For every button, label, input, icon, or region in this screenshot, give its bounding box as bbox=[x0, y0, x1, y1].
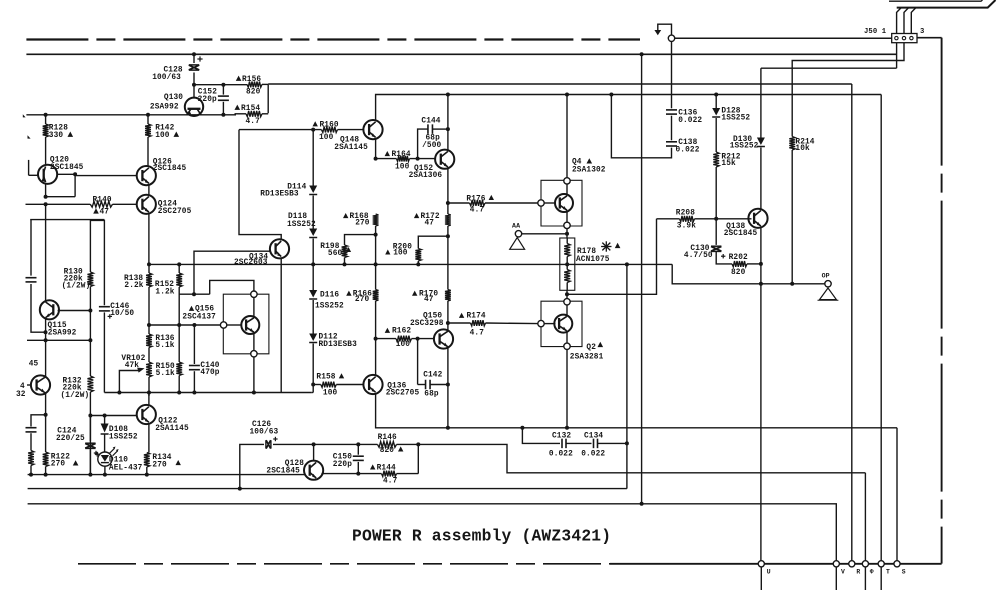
label Q122 type bbox=[155, 425, 189, 433]
svg-text:3: 3 bbox=[920, 28, 924, 36]
diode D114 bbox=[309, 186, 317, 195]
wire J50 pin1 riser bbox=[897, 8, 902, 34]
resistor R144 bbox=[382, 471, 397, 477]
label R214 bbox=[795, 139, 814, 147]
label C140 value bbox=[200, 369, 219, 377]
svg-text:R158: R158 bbox=[316, 374, 335, 382]
svg-text:100: 100 bbox=[323, 389, 338, 397]
capacitor C146 bbox=[99, 307, 112, 319]
pin Q2 collector top bbox=[564, 299, 570, 305]
label C152 value bbox=[198, 96, 217, 104]
wire R132 down bbox=[88, 392, 92, 477]
label C144 value bbox=[426, 134, 441, 142]
label Q156 bbox=[189, 306, 215, 314]
transistor Q150 bbox=[434, 329, 453, 348]
svg-text:R: R bbox=[856, 568, 860, 575]
label R212 bbox=[721, 153, 740, 161]
label D108 type bbox=[109, 433, 138, 441]
svg-text:C134: C134 bbox=[584, 433, 603, 441]
capacitor C144 bbox=[418, 124, 450, 158]
resistor R174 bbox=[471, 320, 486, 326]
wire R146 node jog to phi bbox=[418, 444, 865, 472]
wire R156 output rail bbox=[267, 85, 269, 114]
wire J50 pin2 riser bbox=[904, 8, 909, 34]
resistor R136 bbox=[146, 334, 152, 348]
svg-text:J50 1: J50 1 bbox=[864, 28, 887, 36]
label Q148 bbox=[340, 137, 359, 145]
label C150 value bbox=[333, 461, 352, 469]
svg-text:Q2: Q2 bbox=[586, 344, 596, 352]
capacitor C140 bbox=[189, 325, 200, 393]
wire R178 to Q2 bbox=[565, 290, 569, 298]
svg-text:2SA1302: 2SA1302 bbox=[572, 166, 606, 174]
wire Q132 emitter down bbox=[45, 394, 47, 452]
svg-text:2SC1845: 2SC1845 bbox=[153, 165, 187, 173]
wire node row y84.7 bbox=[192, 83, 247, 87]
wire Q2 emitter inner bbox=[566, 331, 568, 343]
connector J50 bbox=[892, 34, 917, 43]
svg-text:100: 100 bbox=[319, 134, 334, 142]
wire J50 pin1 drop bbox=[896, 43, 898, 68]
wire D110 to rail bbox=[103, 466, 107, 476]
svg-text:2SC2705: 2SC2705 bbox=[386, 389, 420, 397]
svg-text:45: 45 bbox=[29, 360, 39, 368]
wire Q134 emitter down bbox=[280, 258, 282, 393]
wire D112 down bbox=[311, 344, 315, 393]
label Q150 bbox=[423, 312, 442, 320]
wire R162 row bbox=[376, 338, 396, 340]
label R164 value bbox=[395, 163, 410, 171]
label R174 value bbox=[470, 330, 485, 338]
label R150 bbox=[156, 363, 175, 371]
label Q2 type bbox=[570, 354, 604, 362]
wire D130 to Q138 bbox=[760, 148, 762, 210]
resistor R178 lower element bbox=[564, 257, 570, 291]
variable resistor VR102 bbox=[146, 362, 152, 377]
svg-text:2SA1145: 2SA1145 bbox=[155, 425, 189, 433]
label R152 value bbox=[155, 289, 174, 297]
capacitor C120 left lower bbox=[26, 428, 37, 432]
svg-text:0.022: 0.022 bbox=[549, 450, 573, 458]
wire Q122 collector riser bbox=[148, 393, 150, 397]
label R178 asterisk bbox=[601, 241, 620, 251]
label R132 value bbox=[63, 385, 82, 393]
svg-text:270: 270 bbox=[152, 462, 167, 470]
resistor R146 bbox=[378, 442, 397, 448]
label Q138 bbox=[726, 223, 745, 231]
svg-text:0.022: 0.022 bbox=[676, 146, 700, 154]
label R166 value bbox=[355, 296, 370, 304]
wire Q156 emitter bbox=[253, 333, 255, 351]
capacitor C134 bbox=[594, 439, 598, 449]
transistor Q115 bbox=[40, 300, 59, 319]
wire Q138 emitter down to U bbox=[759, 227, 763, 564]
label D118 bbox=[288, 213, 307, 221]
svg-text:270: 270 bbox=[355, 220, 370, 228]
label Q126 bbox=[153, 158, 172, 166]
svg-text:2SA992: 2SA992 bbox=[150, 104, 179, 112]
capacitor C138 bbox=[666, 142, 677, 146]
label Q4 type bbox=[572, 166, 606, 174]
label D130 bbox=[733, 136, 752, 144]
assembly border bottom solid line with terminals bbox=[610, 563, 942, 565]
wire R136 to VR102 bbox=[148, 348, 150, 363]
wire R176 to Q4 bbox=[485, 202, 538, 204]
svg-text:4.7: 4.7 bbox=[470, 330, 485, 338]
resistor R150 bbox=[176, 325, 182, 395]
label C138 bbox=[678, 139, 697, 147]
label R132 wattage bbox=[61, 392, 90, 400]
label R208 value bbox=[677, 223, 696, 231]
label R214 value bbox=[795, 145, 810, 153]
label Q152 type bbox=[409, 172, 443, 180]
wire R128 branch bbox=[44, 113, 48, 165]
wire Q134 base bracket bbox=[194, 251, 270, 294]
wire Q138 collector top run bbox=[761, 67, 897, 69]
wire C134 to riser bbox=[598, 441, 629, 445]
wire rail y488.6 bbox=[28, 488, 627, 490]
label C140 bbox=[200, 362, 219, 370]
wire C136 to C138 bbox=[671, 116, 673, 141]
transistor Q132 bbox=[31, 375, 50, 394]
wire Q156 top bracket bbox=[210, 280, 254, 294]
wire R158 row bbox=[313, 384, 321, 386]
wire left cap to res bbox=[30, 433, 32, 450]
wire R160 row bbox=[239, 129, 322, 131]
wire left res to rail bbox=[29, 466, 33, 477]
wire Q120 collector loop bbox=[44, 172, 78, 198]
wire Q120 emitter bbox=[45, 184, 47, 197]
wire y94 rail Q148 collector to T terminal bbox=[376, 95, 882, 121]
transistor Q138 bbox=[748, 209, 767, 228]
pin Q156 top bbox=[251, 291, 257, 297]
label R128 bbox=[49, 125, 68, 133]
resistor R128 bbox=[43, 124, 49, 137]
svg-text:10k: 10k bbox=[795, 145, 810, 153]
wire C146 branch bbox=[90, 220, 104, 305]
svg-text:RD13ESB3: RD13ESB3 bbox=[260, 190, 299, 198]
wire Q128 collector bbox=[313, 444, 315, 461]
svg-text:R162: R162 bbox=[392, 328, 411, 336]
assembly border dashed top line bbox=[26, 38, 640, 40]
wire C126 to R146 bbox=[273, 442, 378, 446]
pin Q4 emitter bottom bbox=[564, 222, 570, 228]
resistor R156 bbox=[247, 82, 262, 88]
wire VR102 down bbox=[148, 377, 150, 393]
label R122 value bbox=[51, 460, 79, 469]
label R144 value bbox=[383, 478, 398, 486]
wire Q2 collector inner bbox=[566, 305, 568, 316]
label 32 bbox=[16, 391, 26, 399]
label R136 bbox=[155, 335, 174, 343]
label VR102 value bbox=[125, 362, 140, 370]
wire Q4 collector to rail bbox=[565, 93, 569, 178]
ground return symbol bbox=[654, 24, 671, 35]
label D112 bbox=[319, 334, 338, 342]
wire Q2 inner base bbox=[544, 323, 555, 325]
wire R162 to Q150 bbox=[412, 337, 435, 341]
svg-text:220p: 220p bbox=[333, 461, 352, 469]
label D118 type bbox=[287, 221, 316, 229]
label R156 value bbox=[246, 89, 261, 97]
transistor Q134 bbox=[270, 239, 289, 258]
pin Q156 bottom bbox=[251, 351, 257, 357]
wire R130 to R132 bbox=[88, 287, 92, 377]
label Q150 type bbox=[410, 320, 444, 328]
svg-text:2SC3298: 2SC3298 bbox=[410, 320, 444, 328]
resistor R164 bbox=[397, 156, 410, 162]
svg-text:47k: 47k bbox=[125, 362, 140, 370]
label R140 value bbox=[93, 208, 109, 216]
transistor Q156 bbox=[241, 316, 259, 334]
wire R166 down bbox=[374, 301, 378, 376]
svg-text:R178: R178 bbox=[577, 248, 596, 256]
svg-text:470p: 470p bbox=[200, 369, 219, 377]
wire Q4 emitter inner bbox=[566, 210, 568, 222]
resistor R152 bbox=[176, 264, 182, 287]
svg-text:270: 270 bbox=[51, 461, 66, 469]
wire R140 row bbox=[26, 203, 138, 205]
capacitor C142 bbox=[418, 339, 450, 390]
label C142 bbox=[423, 372, 442, 380]
label C136 bbox=[678, 109, 697, 117]
label AA bbox=[512, 223, 520, 230]
tick rail end bbox=[23, 114, 26, 117]
svg-text:C132: C132 bbox=[552, 433, 571, 441]
svg-text:5.1k: 5.1k bbox=[156, 370, 175, 378]
wire Vbe sense row bbox=[567, 219, 657, 294]
tick left border bbox=[28, 135, 31, 138]
assembly border right dashed line bbox=[941, 38, 943, 564]
wire C146 down bbox=[103, 312, 105, 392]
label C132 value bbox=[549, 450, 573, 458]
wire D108 to D110 bbox=[104, 434, 106, 452]
wire R134 to rail bbox=[145, 467, 149, 477]
node AA triangle bbox=[510, 238, 525, 250]
wire R144 to riser bbox=[397, 444, 419, 473]
resistor R178 box bbox=[560, 238, 575, 290]
svg-text:R164: R164 bbox=[392, 151, 411, 159]
label Q2 bbox=[586, 342, 603, 352]
resistor R160 bbox=[322, 127, 338, 133]
svg-text:C144: C144 bbox=[421, 117, 440, 125]
wire Q128 emitter row bbox=[321, 472, 381, 476]
svg-text:R146: R146 bbox=[378, 434, 397, 442]
svg-text:270: 270 bbox=[355, 296, 370, 304]
label R202 value bbox=[731, 269, 746, 277]
wire VR102 wiper bbox=[119, 368, 144, 393]
diode D118 bbox=[309, 229, 317, 238]
svg-text:ACN1075: ACN1075 bbox=[576, 256, 610, 264]
wire R208 row bbox=[657, 218, 680, 220]
svg-text:2SC4137: 2SC4137 bbox=[182, 313, 216, 321]
label R156 bbox=[236, 76, 262, 84]
svg-text:2SC1845: 2SC1845 bbox=[50, 164, 84, 172]
label C124 value bbox=[56, 435, 85, 443]
svg-text:V: V bbox=[841, 568, 845, 575]
resistor R158 bbox=[321, 382, 337, 388]
wire Q120 to Q126 base bbox=[75, 175, 137, 177]
resistor R200 bbox=[415, 236, 448, 264]
wire Q136 emitter down bbox=[376, 393, 897, 427]
label R200 value bbox=[385, 250, 408, 258]
wire left cap link bbox=[31, 284, 48, 334]
wire R122 to rail bbox=[44, 467, 48, 477]
svg-text:100: 100 bbox=[396, 341, 411, 349]
wire R158 to Q136 bbox=[336, 384, 364, 386]
label Q120 type bbox=[50, 164, 84, 172]
svg-text:47: 47 bbox=[425, 220, 435, 228]
label R198 value bbox=[328, 250, 343, 258]
label D110 plus bbox=[95, 452, 100, 457]
wire Q134 collector bracket bbox=[239, 130, 281, 240]
wire bias bus y392.5 bbox=[104, 391, 311, 395]
label R160 bbox=[313, 121, 339, 129]
label Q156 type bbox=[182, 313, 216, 321]
assembly border bottom dashed segment bbox=[78, 563, 610, 565]
wire bias wire y264.4 bbox=[149, 262, 672, 266]
wire Q152 collector bbox=[446, 93, 450, 151]
wire R170 to Q150 bbox=[446, 301, 450, 330]
capacitor C130 bbox=[711, 246, 725, 258]
svg-text:R160: R160 bbox=[320, 121, 339, 129]
wire Q122 base row bbox=[90, 414, 137, 418]
svg-text:4.7: 4.7 bbox=[470, 206, 485, 214]
wire R130 line top bbox=[89, 220, 91, 272]
diode D108 bbox=[101, 416, 109, 435]
transistor Q122 bbox=[137, 405, 156, 424]
pin Q156 base left bbox=[220, 322, 226, 328]
svg-text:2SC2603: 2SC2603 bbox=[234, 259, 268, 267]
svg-text:1SS252: 1SS252 bbox=[315, 303, 344, 311]
svg-text:AA: AA bbox=[512, 223, 520, 230]
label R208 bbox=[676, 210, 695, 218]
label D116 type bbox=[315, 303, 344, 311]
label R152 bbox=[155, 281, 174, 289]
svg-text:2SA992: 2SA992 bbox=[48, 329, 77, 337]
capacitor C126 bbox=[266, 437, 278, 449]
label OP bbox=[822, 273, 830, 280]
svg-text:0.022: 0.022 bbox=[581, 450, 605, 458]
label R150 value bbox=[156, 370, 175, 378]
wire R208 to Q138 base bbox=[695, 217, 752, 221]
svg-text:5.1k: 5.1k bbox=[155, 342, 174, 350]
node OP triangle bbox=[818, 288, 839, 300]
svg-text:2SC1845: 2SC1845 bbox=[724, 230, 758, 238]
svg-text:2.2k: 2.2k bbox=[124, 282, 143, 290]
label 4 bbox=[20, 383, 25, 391]
label V bbox=[841, 568, 845, 575]
LED D110 bbox=[98, 447, 119, 467]
svg-text:2SA1306: 2SA1306 bbox=[409, 172, 443, 180]
label R138 bbox=[124, 275, 143, 283]
label Q136 bbox=[387, 383, 406, 391]
label C128 value bbox=[152, 74, 181, 82]
wire R138 to R136 bbox=[147, 287, 151, 334]
svg-text:47: 47 bbox=[424, 296, 434, 304]
wire main rail y115 bbox=[26, 114, 236, 116]
wire D118 to bias bbox=[312, 239, 314, 291]
wire Q156 base row bbox=[149, 323, 220, 327]
wire R146 to node bbox=[397, 442, 421, 446]
wire Q124 emitter node bbox=[147, 262, 151, 266]
label R134 value bbox=[152, 460, 181, 470]
label D108 bbox=[109, 426, 128, 434]
terminal PHI bbox=[862, 561, 868, 590]
label C126 value bbox=[250, 429, 279, 437]
terminal U bbox=[758, 561, 764, 590]
wire Q4 collector inner bbox=[566, 184, 568, 195]
terminal V bbox=[833, 561, 839, 590]
terminal T bbox=[878, 561, 884, 590]
wire Q156 collector bbox=[253, 297, 255, 317]
svg-text:R140: R140 bbox=[93, 196, 112, 204]
diode D130 bbox=[757, 68, 765, 146]
svg-text:D116: D116 bbox=[320, 291, 339, 299]
pin Q4 collector top bbox=[564, 178, 570, 184]
wire Q120 base stub bbox=[29, 160, 39, 175]
transistor Q152 bbox=[435, 150, 454, 169]
terminal S bbox=[894, 561, 900, 567]
label D128 type bbox=[721, 115, 750, 123]
diode D116 bbox=[309, 290, 317, 299]
label C146 bbox=[110, 303, 129, 311]
svg-text:U: U bbox=[767, 568, 771, 575]
label R198 bbox=[320, 243, 351, 252]
wire Q124 emitter down bbox=[148, 213, 150, 264]
wire R168 to R166 bbox=[374, 226, 378, 290]
label R146 bbox=[378, 434, 397, 442]
wire R174 to Q2 bbox=[486, 322, 538, 325]
svg-text:47: 47 bbox=[100, 209, 110, 217]
label R172 value bbox=[425, 220, 435, 228]
label Q136 type bbox=[386, 389, 420, 397]
resistor R162 bbox=[396, 336, 412, 342]
label R168 value bbox=[355, 220, 370, 228]
label R142 value bbox=[155, 132, 179, 141]
label U bbox=[767, 568, 771, 575]
wire C132 branch bbox=[520, 426, 560, 444]
wire C126 branch bbox=[238, 444, 264, 490]
svg-text:330: 330 bbox=[49, 132, 64, 140]
label R160 value bbox=[319, 134, 334, 142]
label D114 bbox=[287, 184, 306, 192]
wire Q4 emitter to R178 bbox=[565, 229, 569, 238]
transistor Q2 bbox=[554, 315, 572, 333]
svg-text:/500: /500 bbox=[422, 142, 441, 150]
label T bbox=[886, 568, 890, 575]
svg-text:820: 820 bbox=[380, 447, 395, 455]
svg-text:R208: R208 bbox=[676, 210, 695, 218]
label D112 type bbox=[319, 341, 358, 349]
wire bias to OP bbox=[672, 264, 825, 283]
wire Q115 emitter down bbox=[45, 318, 47, 377]
node OP circle bbox=[825, 281, 831, 287]
label 45 bbox=[29, 360, 39, 368]
svg-text:10/50: 10/50 bbox=[110, 310, 134, 318]
label R154 bbox=[235, 105, 261, 113]
label PHI bbox=[870, 568, 874, 575]
label D116 bbox=[320, 291, 339, 299]
label C144 voltage bbox=[422, 142, 441, 150]
capacitor C124 bbox=[85, 416, 98, 475]
svg-text:32: 32 bbox=[16, 391, 26, 399]
diode D128 bbox=[712, 93, 720, 118]
svg-text:68p: 68p bbox=[424, 390, 439, 398]
label R178 bbox=[577, 248, 596, 256]
transistor Q136 bbox=[363, 375, 382, 394]
wire T terminal drop bbox=[880, 95, 882, 564]
